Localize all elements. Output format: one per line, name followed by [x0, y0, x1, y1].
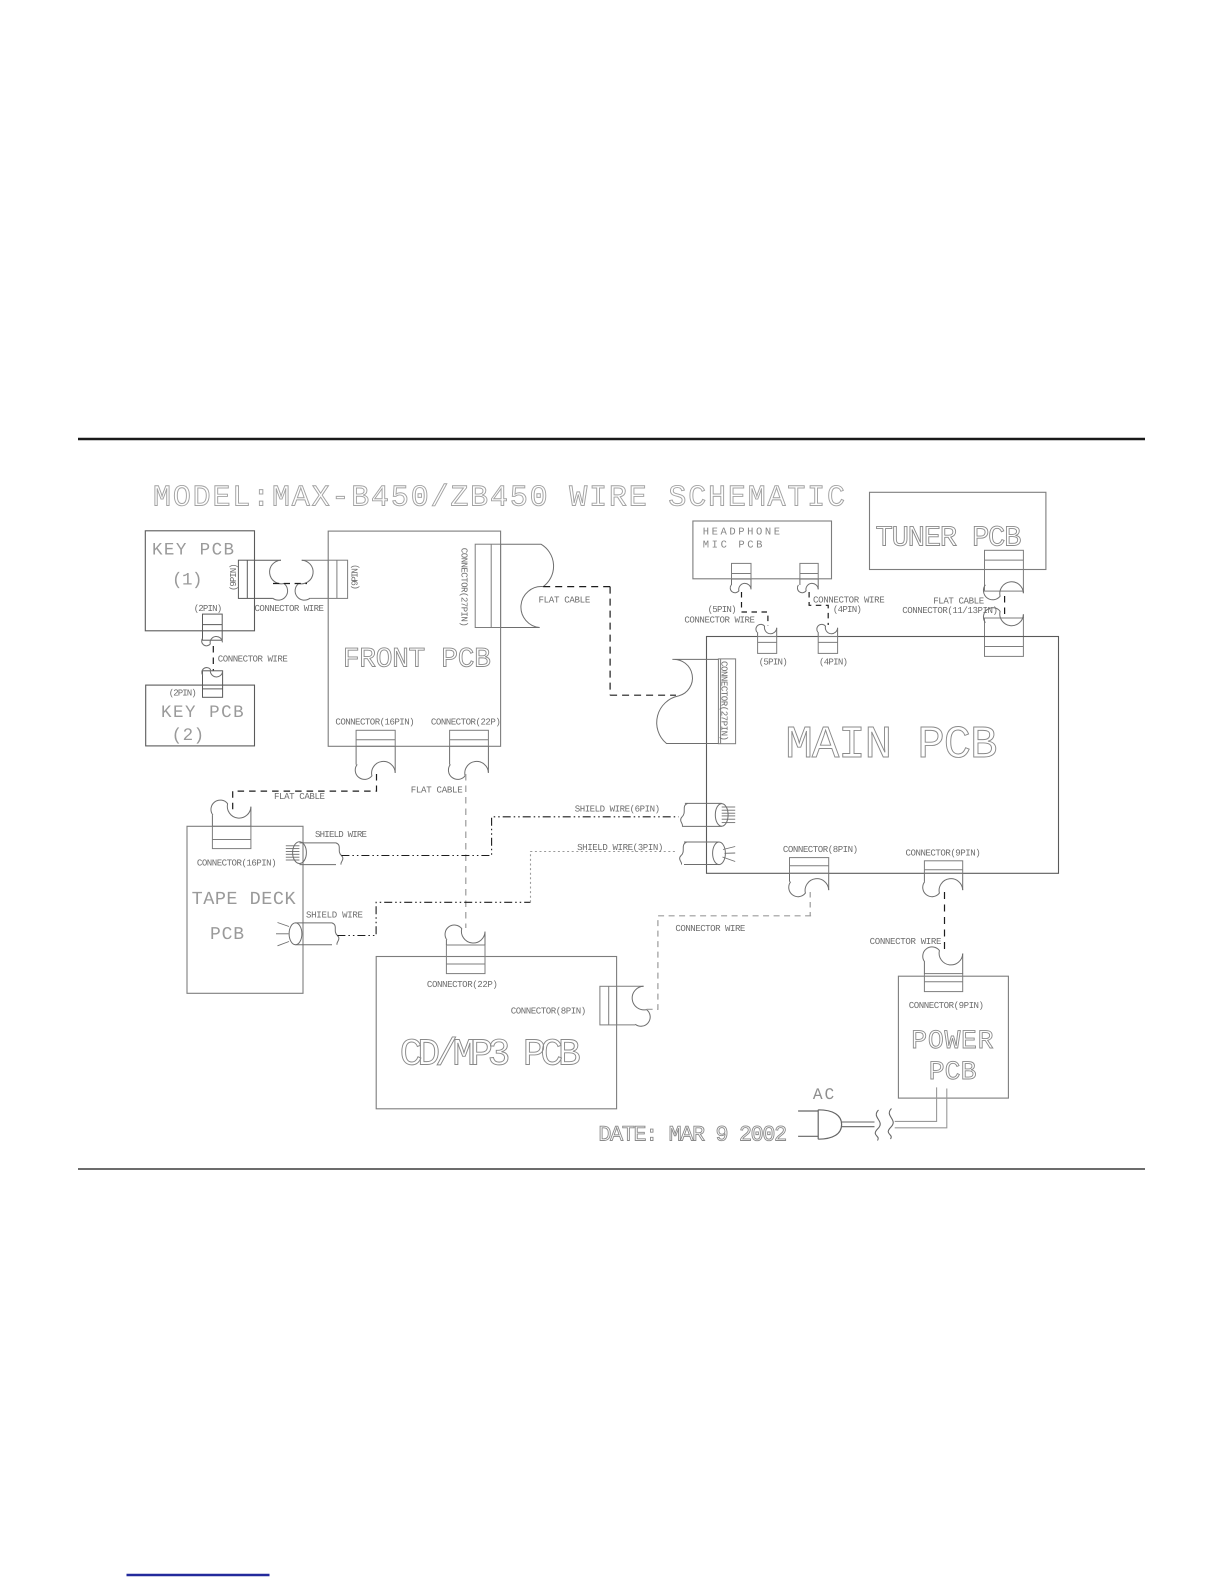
connector (4PIN) on HEADPHONE PCB bottom [800, 563, 818, 579]
svg-text:CONNECTOR(8PIN): CONNECTOR(8PIN) [783, 844, 858, 855]
wire curl below HEADPHONE 4pin connector [797, 583, 818, 592]
shield wire (6PIN) dash-dot path TAPE DECK to MAIN [341, 817, 678, 856]
svg-text:(5PIN): (5PIN) [759, 656, 788, 667]
shield wire (3PIN) dash-dot path TAPE DECK to MAIN [337, 902, 530, 935]
shield wire cable end (lower) at TAPE DECK [289, 923, 302, 945]
connector CONNECTOR(8PIN) on MAIN PCB bottom [790, 858, 829, 874]
svg-text:SHIELD WIRE(6PIN): SHIELD WIRE(6PIN) [575, 804, 660, 815]
connector wire dashed MAIN 9pin to POWER [944, 892, 946, 951]
svg-text:CONNECTOR(9PIN): CONNECTOR(9PIN) [906, 847, 981, 858]
svg-text:SHIELD WIRE: SHIELD WIRE [315, 829, 367, 840]
connector (5PIN) on HEADPHONE PCB bottom [732, 563, 752, 579]
KEY PCB (2) box [146, 685, 255, 746]
TUNER PCB box [870, 492, 1046, 569]
svg-text:FLAT CABLE: FLAT CABLE [411, 784, 463, 795]
svg-text:CONNECTOR(27PIN): CONNECTOR(27PIN) [459, 548, 470, 627]
connector (2PIN) on KEY PCB(1) bottom edge [203, 614, 223, 640]
TAPE DECK PCB box [187, 826, 303, 993]
connector wire dashed KEY PCB(1) to KEY PCB(2) [212, 646, 214, 671]
svg-text:CONNECTOR WIRE: CONNECTOR WIRE [870, 936, 942, 947]
svg-text:KEY PCB: KEY PCB [152, 541, 234, 561]
flat cable dashed FRONT to MAIN (h1) [543, 586, 610, 588]
svg-text:CONNECTOR(22P): CONNECTOR(22P) [431, 716, 501, 727]
svg-text:POWER: POWER [911, 1026, 993, 1056]
connector wire dashed below MAIN 8pin (gray) [809, 892, 811, 916]
wire curl below FRONT PCB 22p connector [448, 761, 488, 779]
svg-text:(4PIN): (4PIN) [819, 656, 848, 667]
AC cord double line to POWER PCB [895, 1087, 947, 1127]
svg-text:(1): (1) [172, 571, 203, 591]
connector CONNECTOR(9PIN) on MAIN PCB bottom [924, 861, 962, 874]
svg-text:PCB: PCB [210, 925, 244, 945]
svg-text:MAIN PCB: MAIN PCB [786, 719, 998, 771]
wire curl below KEY PCB(1) 2pin connector [202, 636, 223, 645]
wire curl above TAPE DECK 16pin connector [211, 800, 251, 818]
FRONT PCB box [328, 531, 500, 746]
flat cable dashed FRONT 16pin to TAPE DECK [233, 774, 377, 812]
svg-text:HEADPHONE: HEADPHONE [703, 526, 780, 538]
svg-text:TUNER PCB: TUNER PCB [876, 521, 1022, 554]
top horizontal rule [78, 438, 1145, 441]
connector wire dashed CD/MP3 8pin to MAIN 8pin (gray) [647, 916, 812, 1010]
svg-text:FRONT PCB: FRONT PCB [343, 645, 491, 676]
connector CONNECTOR(11/13PIN) on TUNER PCB bottom [985, 550, 1024, 591]
shield wire (3PIN) cable end at MAIN PCB [684, 842, 719, 865]
connector wire dashed KEY PCB(1) to FRONT PCB [273, 583, 307, 585]
wire curl above CD/MP3 22p connector [445, 925, 485, 943]
svg-text:(9PIN): (9PIN) [350, 564, 361, 590]
wire curl above MAIN 5pin connector [756, 624, 777, 633]
connector CONNECTOR(27PIN) on MAIN PCB left edge [718, 659, 735, 744]
svg-text:CONNECTOR WIRE: CONNECTOR WIRE [684, 615, 755, 626]
shield wire (6PIN) cable end at MAIN PCB [682, 803, 722, 826]
svg-text:AC: AC [813, 1086, 835, 1104]
svg-text:SHIELD WIRE(3PIN): SHIELD WIRE(3PIN) [577, 842, 663, 853]
connector CONNECTOR(9PIN) on POWER PCB top [924, 974, 962, 992]
svg-text:CONNECTOR WIRE: CONNECTOR WIRE [675, 923, 745, 934]
connector CONNECTOR(16PIN) on FRONT PCB bottom [356, 730, 395, 746]
wire curl below TUNER connector [983, 582, 1023, 600]
connector (4PIN) on MAIN PCB top [818, 637, 837, 654]
wire curl below FRONT PCB 16pin connector [355, 761, 395, 779]
connector wire dashed HEADPHONE 4pin to MAIN [809, 592, 828, 625]
wire curl below MAIN 8pin connector [789, 879, 829, 897]
svg-text:CONNECTOR(27PIN): CONNECTOR(27PIN) [719, 661, 730, 741]
svg-text:FLAT CABLE: FLAT CABLE [539, 594, 591, 605]
CD/MP3 PCB box [376, 957, 616, 1109]
wire curl above POWER 9pin connector [923, 947, 963, 965]
svg-text:CONNECTOR(8PIN): CONNECTOR(8PIN) [511, 1006, 587, 1017]
flat cable dashed FRONT 22p to CD/MP3 (gray) [465, 774, 467, 928]
MAIN PCB box [707, 637, 1059, 874]
connector CONNECTOR(11/13PIN) on MAIN PCB top [985, 618, 1024, 656]
connector (9PIN) on FRONT PCB left edge [302, 560, 348, 598]
flat cable curl at MAIN PCB 27pin connector [657, 659, 719, 743]
svg-text:CONNECTOR WIRE: CONNECTOR WIRE [255, 603, 325, 614]
connector CONNECTOR(8PIN) on CD/MP3 right edge [600, 986, 644, 1025]
AC cord squiggle strain relief [875, 1110, 880, 1141]
svg-text:CONNECTOR(9PIN): CONNECTOR(9PIN) [909, 1000, 984, 1011]
connector CONNECTOR(27PIN) on FRONT PCB right edge [475, 544, 500, 627]
svg-text:SHIELD WIRE: SHIELD WIRE [306, 910, 363, 921]
svg-text:CD/MP3 PCB: CD/MP3 PCB [400, 1034, 581, 1077]
svg-text:(4PIN): (4PIN) [833, 604, 862, 615]
wire curl above MAIN 4pin connector [817, 624, 838, 633]
svg-text:DATE: MAR 9 2002: DATE: MAR 9 2002 [598, 1122, 787, 1147]
svg-text:(2PIN): (2PIN) [194, 603, 223, 614]
connector (9PIN) on KEY PCB(1) right edge [238, 560, 281, 598]
AC cord double line (left) [842, 1122, 875, 1127]
flat cable dashed FRONT to MAIN (v) [609, 587, 611, 696]
connector CONNECTOR(22P) on FRONT PCB bottom [450, 730, 489, 746]
wire curl above KEY PCB(2) 2pin connector [202, 668, 223, 677]
flat cable dashed TUNER to MAIN [1004, 596, 1006, 616]
KEY PCB (1) box [145, 531, 254, 631]
blue footer link underline [127, 1574, 270, 1576]
svg-text:PCB: PCB [929, 1057, 977, 1087]
svg-text:CONNECTOR(11/13PIN): CONNECTOR(11/13PIN) [902, 605, 998, 616]
svg-text:(9PIN): (9PIN) [228, 563, 239, 591]
svg-text:FLAT CABLE: FLAT CABLE [274, 791, 325, 802]
svg-text:(2): (2) [172, 726, 205, 746]
connector wire dashed HEADPHONE 5pin to MAIN [742, 592, 768, 626]
svg-text:(2PIN): (2PIN) [169, 687, 197, 698]
HEADPHONE MIC PCB box [693, 521, 832, 579]
POWER PCB box [898, 976, 1008, 1098]
wire curl at KEY PCB(1) 9pin connector [270, 560, 288, 600]
wire curl at FRONT PCB 9pin connector [295, 560, 313, 600]
wire curl at CD/MP3 8pin connector [632, 986, 650, 1026]
connector CONNECTOR(22P) on CD/MP3 top [446, 945, 485, 974]
svg-text:CONNECTOR WIRE: CONNECTOR WIRE [218, 654, 288, 665]
svg-text:TAPE DECK: TAPE DECK [192, 889, 297, 910]
connector (5PIN) on MAIN PCB top [758, 637, 777, 654]
svg-text:KEY PCB: KEY PCB [161, 703, 244, 723]
svg-text:CONNECTOR(22P): CONNECTOR(22P) [427, 979, 498, 990]
shield wire cable end (upper) at TAPE DECK [293, 842, 307, 864]
flat cable dashed FRONT to MAIN (h2) [610, 694, 676, 696]
wire curl above MAIN tuner connector [983, 608, 1023, 626]
connector CONNECTOR(16PIN) on TAPE DECK top [212, 826, 251, 848]
svg-text:CONNECTOR(16PIN): CONNECTOR(16PIN) [197, 857, 277, 868]
wire curl below MAIN 9pin connector [923, 879, 963, 897]
wire curl below HEADPHONE 5pin connector [730, 583, 751, 592]
flat cable curl at FRONT PCB 27pin connector [501, 544, 554, 627]
AC plug prongs [798, 1111, 818, 1136]
svg-text:CONNECTOR(16PIN): CONNECTOR(16PIN) [335, 716, 414, 727]
bottom horizontal rule [78, 1168, 1145, 1170]
svg-text:MODEL:MAX-B450/ZB450 WIRE SCHE: MODEL:MAX-B450/ZB450 WIRE SCHEMATIC [153, 482, 845, 516]
svg-text:MIC PCB: MIC PCB [703, 540, 763, 552]
connector (2PIN) on KEY PCB(2) top edge [203, 671, 223, 698]
AC plug body [818, 1110, 841, 1139]
